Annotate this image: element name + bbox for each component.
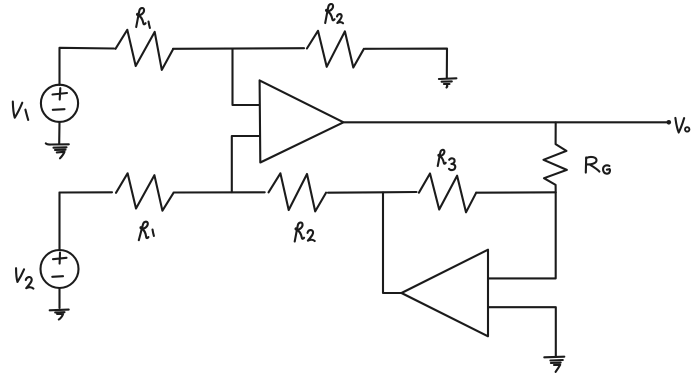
resistor R2 (top) — [307, 31, 364, 68]
wire from R1 to R2 with junction at x=232 — [173, 47, 304, 50]
output wire to Vo — [344, 121, 668, 123]
wire to op-amp U1 non-inverting input — [232, 136, 260, 192]
ground (below V1) — [46, 143, 69, 158]
label RG — [586, 157, 600, 173]
ground (bottom right) — [544, 357, 564, 372]
label R1 (top) — [136, 8, 145, 27]
ground (below V2) — [50, 310, 69, 320]
wire R1 to R2 (bottom) — [174, 191, 265, 193]
label V2 — [14, 268, 25, 283]
wire from R2 down to ground — [365, 49, 447, 78]
resistor R2 (bottom) — [269, 173, 327, 211]
wire U2 output to feedback junction — [383, 192, 402, 293]
resistor R1 (bottom) — [116, 173, 173, 210]
resistor R3 — [419, 174, 476, 213]
resistor RG (vertical) — [544, 122, 567, 192]
ground (top right) — [439, 78, 457, 87]
label R2 (top) — [325, 4, 334, 23]
wire RG bottom down to op-amp U2 inverting input — [489, 192, 556, 278]
wire to op-amp U1 inverting input — [233, 49, 260, 105]
op-amp U2 — [402, 250, 489, 337]
wire U2 non-inverting input to ground — [489, 307, 556, 356]
voltage source V2 — [41, 250, 79, 288]
label R1 (bottom) — [139, 221, 150, 241]
label R3 — [438, 150, 446, 166]
node Vo terminal dot — [667, 120, 672, 125]
op-amp U1 — [260, 80, 344, 162]
wire bottom rail to R1 — [60, 191, 113, 193]
label V1 — [10, 101, 22, 118]
resistor R1 (top) — [116, 30, 174, 70]
wire from V1 top up and right to R1 — [60, 48, 115, 85]
wire R2 to R3 with junction at x=383 — [328, 191, 417, 194]
wire R3 to RG bottom node — [476, 191, 556, 193]
wire V2 to ground — [58, 288, 60, 308]
label Vo — [674, 117, 684, 132]
wire V2 up to bottom rail — [58, 193, 60, 251]
label R2 (bottom) — [295, 223, 304, 242]
voltage source V1 — [41, 85, 78, 122]
wire V1 to ground — [58, 122, 60, 144]
